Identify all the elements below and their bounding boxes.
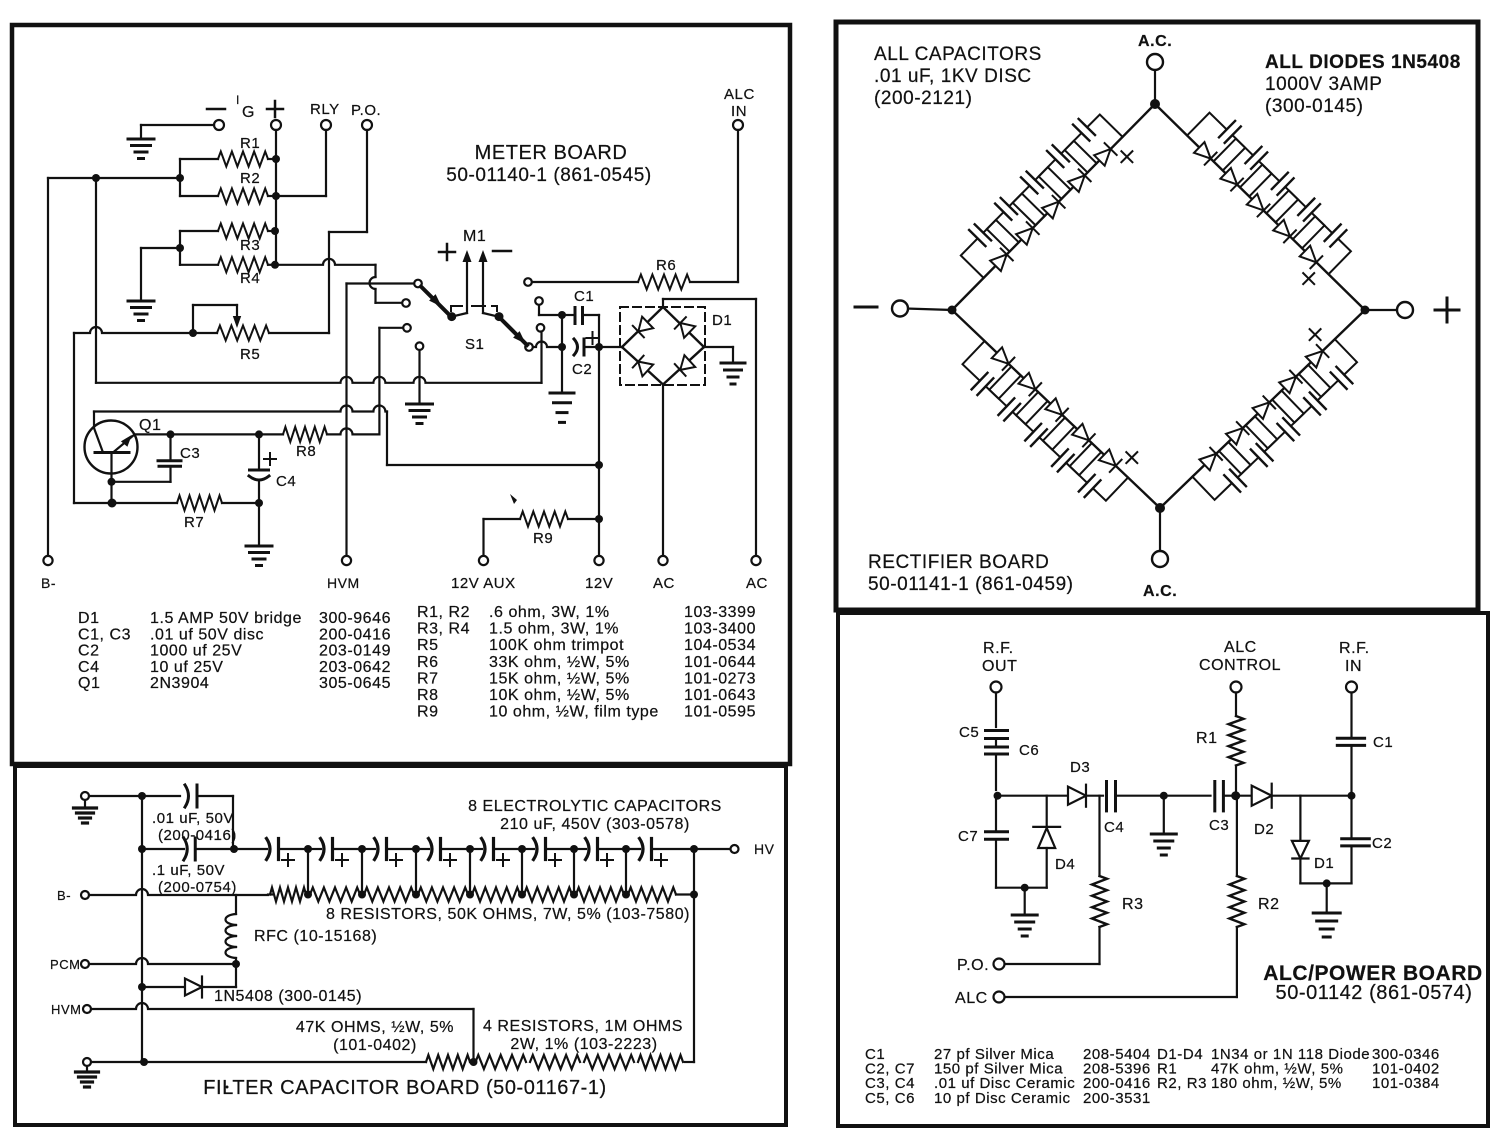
wire y411 bus [94, 406, 387, 412]
electrolytic capacitor 7 [586, 839, 590, 860]
svg-text:R.F.: R.F. [1339, 640, 1370, 657]
svg-text:D1: D1 [1314, 855, 1334, 872]
node ground right [1323, 879, 1331, 887]
node R9 right [595, 515, 603, 523]
ground mid-left [128, 300, 154, 303]
wire Q1 emitter row y434 [135, 433, 261, 435]
svg-text:203-0642: 203-0642 [319, 659, 391, 676]
node Q1 base / R7 [108, 499, 117, 508]
svg-text:R2: R2 [240, 170, 260, 187]
wire right rail x694 [693, 849, 695, 895]
svg-text:10 uf 25V: 10 uf 25V [150, 659, 223, 676]
svg-text:RLY: RLY [310, 101, 340, 118]
meter lead minus arrow [482, 258, 484, 313]
svg-text:ALC: ALC [955, 990, 988, 1007]
node bridge left [948, 306, 957, 315]
svg-text:S1: S1 [465, 336, 484, 353]
svg-text:C4: C4 [276, 473, 296, 490]
svg-text:47K OHMS, ½W, 5%: 47K OHMS, ½W, 5% [296, 1019, 454, 1036]
svg-text:C3: C3 [180, 445, 200, 462]
wire HVM row (hop x142) [91, 1003, 474, 1009]
svg-text:R5: R5 [417, 637, 439, 654]
electrolytic capacitor 1 [267, 839, 271, 860]
svg-text:101-0595: 101-0595 [684, 704, 756, 721]
svg-text:R2: R2 [1258, 896, 1280, 913]
svg-text:1000V 3AMP: 1000V 3AMP [1265, 74, 1382, 95]
svg-text:R2, R3: R2, R3 [1157, 1075, 1207, 1092]
wire rail x142 down [141, 849, 143, 1062]
switch S1 contact F [535, 297, 543, 305]
resistor 1M #4 [638, 1055, 683, 1069]
svg-text:R8: R8 [417, 687, 439, 704]
svg-text:C1: C1 [574, 288, 594, 305]
svg-text:ALL DIODES 1N5408: ALL DIODES 1N5408 [1265, 52, 1461, 73]
electrolytic capacitor 6 [534, 839, 538, 860]
switch pole S1-1 [421, 287, 450, 316]
svg-text:33K ohm, ½W, 5%: 33K ohm, ½W, 5% [489, 654, 630, 671]
svg-text:CONTROL: CONTROL [1199, 657, 1281, 674]
switch pole S1-2 [500, 318, 527, 345]
switch S1 contact G [537, 324, 545, 332]
panel border: RECTIFIER BOARD box [836, 22, 1478, 610]
rail x96 to wire y383 [95, 178, 97, 383]
svg-text:.01 uF, 50V: .01 uF, 50V [152, 810, 234, 827]
svg-text:2W, 1% (103-2223): 2W, 1% (103-2223) [510, 1036, 657, 1053]
bridge arm upper-left (diodes and capacitors) [952, 104, 1155, 310]
svg-text:HVM: HVM [51, 1002, 82, 1017]
node x233 HV row [230, 845, 238, 853]
svg-text:G: G [242, 104, 255, 121]
svg-text:(200-0754): (200-0754) [158, 879, 237, 896]
terminal ground top-left [81, 792, 89, 800]
node R3 right [271, 227, 279, 235]
wire RF OUT rail [995, 693, 997, 728]
terminal AC 2 [751, 556, 760, 565]
svg-text:B-: B- [41, 575, 56, 591]
ground under C2 [550, 392, 574, 395]
svg-text:101-0384: 101-0384 [1372, 1075, 1440, 1092]
svg-text:305-0645: 305-0645 [319, 675, 391, 692]
resistor 50K #6 [524, 888, 572, 902]
resistor 50K #8 [628, 888, 676, 902]
switch S1 contact C [403, 324, 411, 332]
svg-text:D2: D2 [1254, 821, 1274, 838]
wire top row to .01 cap [89, 795, 180, 797]
node y465 [595, 461, 603, 469]
svg-text:Q1: Q1 [78, 675, 100, 692]
wire bus to D3 [996, 795, 1068, 797]
wire resistor row right end [676, 893, 694, 895]
wire x74 rail to R7 [73, 333, 75, 503]
svg-text:8 ELECTROLYTIC CAPACITORS: 8 ELECTROLYTIC CAPACITORS [468, 798, 722, 815]
svg-text:101-0643: 101-0643 [684, 687, 756, 704]
resistor 50K #4 [418, 888, 468, 902]
svg-text:.01 uf 50V disc: .01 uf 50V disc [150, 626, 264, 643]
svg-text:15K ohm, ½W, 5%: 15K ohm, ½W, 5% [489, 670, 630, 687]
svg-text:R6: R6 [417, 654, 439, 671]
svg-text:103-3400: 103-3400 [684, 621, 756, 638]
svg-text:12V: 12V [585, 575, 613, 592]
svg-text:FILTER CAPACITOR BOARD (50-011: FILTER CAPACITOR BOARD (50-01167-1) [203, 1077, 606, 1099]
svg-text:D4: D4 [1055, 856, 1075, 873]
svg-text:ALL CAPACITORS: ALL CAPACITORS [874, 44, 1042, 65]
wire C2 bottom [1300, 882, 1351, 884]
wire ALC row [1005, 996, 1237, 998]
resistor 50K #7 [576, 888, 624, 902]
terminal plus right [1365, 309, 1398, 311]
svg-text:OUT: OUT [982, 658, 1017, 675]
wire bridge bottom to AC rail [662, 385, 664, 557]
terminal B- [81, 891, 89, 899]
wire PCM row (hop x142) [89, 958, 236, 964]
svg-text:(200-0416): (200-0416) [158, 827, 237, 844]
node C3 top [167, 430, 175, 438]
wire R9 to 12V AUX [482, 519, 484, 556]
terminal 12V [594, 556, 603, 565]
svg-text:1.5 ohm, 3W, 1%: 1.5 ohm, 3W, 1% [489, 621, 619, 638]
resistor 50K #3 [364, 888, 414, 902]
resistor 1M #2 [530, 1055, 580, 1069]
svg-text:ALC: ALC [724, 86, 755, 103]
svg-text:R9: R9 [533, 530, 553, 547]
terminal G-plus [267, 108, 283, 111]
svg-text:R9: R9 [417, 704, 439, 721]
ground under S1 [407, 403, 433, 406]
terminal G-minus [207, 108, 225, 111]
svg-text:R5: R5 [240, 346, 260, 363]
svg-text:50-01141-1 (861-0459): 50-01141-1 (861-0459) [868, 574, 1074, 595]
panel border: ALC/POWER BOARD box [838, 613, 1488, 1126]
svg-text:1N5408 (300-0145): 1N5408 (300-0145) [214, 988, 362, 1005]
svg-text:8 RESISTORS, 50K OHMS, 7W, 5%: 8 RESISTORS, 50K OHMS, 7W, 5% (103-7580) [326, 906, 690, 923]
svg-text:R.F.: R.F. [983, 640, 1014, 657]
svg-text:101-0273: 101-0273 [684, 670, 756, 687]
svg-text:RFC (10-15168): RFC (10-15168) [254, 928, 377, 945]
svg-text:203-0149: 203-0149 [319, 643, 391, 660]
wire D4/C7 bottom [996, 887, 1047, 889]
resistor 1M #3 [584, 1055, 634, 1069]
svg-text:IN: IN [1345, 658, 1362, 675]
node 47K/HVM [470, 1058, 478, 1066]
svg-text:Q1: Q1 [139, 417, 161, 434]
svg-text:1.5 AMP 50V bridge: 1.5 AMP 50V bridge [150, 610, 302, 627]
wire B- row (hop x142) [89, 889, 268, 895]
node B- rail top [92, 174, 100, 182]
svg-text:50-01140-1 (861-0545): 50-01140-1 (861-0545) [446, 165, 652, 186]
node bridge top [1150, 99, 1160, 109]
wire contact C to R8 [379, 327, 403, 329]
node R3R4 tie [176, 244, 184, 252]
wire R1R2 left tie [179, 159, 181, 196]
meter lead plus arrow [466, 258, 468, 313]
diode bridge D1 dashed box [620, 307, 705, 385]
svg-text:C4: C4 [78, 659, 100, 676]
svg-text:D3: D3 [1070, 759, 1090, 776]
svg-text:(300-0145): (300-0145) [1265, 96, 1363, 117]
wire HVM down to bottom row [472, 1009, 474, 1062]
node ALC control [1231, 791, 1240, 800]
svg-text:M1: M1 [463, 228, 486, 245]
wire tie to left rails [48, 177, 180, 179]
svg-text:180 ohm, ½W, 5%: 180 ohm, ½W, 5% [1211, 1075, 1342, 1092]
resistor 50K #1 [270, 888, 306, 902]
svg-text:101-0644: 101-0644 [684, 654, 756, 671]
svg-text:C5, C6: C5, C6 [865, 1090, 915, 1107]
wire plus rail [275, 130, 277, 265]
bridge diode bottom-left [638, 362, 653, 377]
svg-text:C6: C6 [1019, 742, 1039, 759]
node RF IN [1348, 792, 1356, 800]
terminal B- [43, 556, 52, 565]
svg-text:C7: C7 [958, 828, 978, 845]
wire to HV terminal [694, 848, 730, 850]
svg-text:R1: R1 [1196, 730, 1218, 747]
svg-text:210 uF, 450V (303-0578): 210 uF, 450V (303-0578) [500, 816, 690, 833]
node top row [138, 792, 146, 800]
svg-text:R3: R3 [240, 237, 260, 254]
terminal PCM [81, 960, 89, 968]
wire R3R4 left tie [179, 231, 181, 265]
svg-text:P.O.: P.O. [351, 102, 381, 119]
svg-text:IN: IN [731, 103, 747, 120]
node C2 out [595, 343, 603, 351]
svg-text:C3: C3 [1209, 817, 1229, 834]
svg-text:C2: C2 [78, 643, 100, 660]
electrolytic capacitor 3 [375, 839, 379, 860]
svg-text:C1, C3: C1, C3 [78, 626, 131, 643]
bridge diamond [622, 307, 663, 347]
node mid bus [1160, 792, 1168, 800]
svg-text:R7: R7 [184, 514, 204, 531]
electrolytic capacitor 5 [482, 839, 486, 860]
ground right of bridge [721, 362, 745, 365]
svg-text:ALC: ALC [1224, 639, 1257, 656]
ground under C4 [246, 545, 272, 548]
svg-text:10K ohm, ½W, 5%: 10K ohm, ½W, 5% [489, 687, 630, 704]
terminal minus left [907, 309, 952, 311]
svg-text:1000 uf 25V: 1000 uf 25V [150, 643, 242, 660]
svg-text:D1: D1 [712, 312, 732, 329]
svg-text:R4: R4 [240, 270, 260, 287]
svg-text:HV: HV [754, 841, 775, 857]
svg-text:R1, R2: R1, R2 [417, 604, 470, 621]
wire contact H to C2 (hop over contact G stem) [533, 342, 562, 348]
wire P.O. row [1005, 963, 1100, 965]
svg-text:100K ohm trimpot: 100K ohm trimpot [489, 637, 624, 654]
switch S1 contact E to R6 [524, 278, 532, 286]
wire R2 to RLY [276, 195, 326, 197]
svg-text:A.C.: A.C. [1143, 583, 1177, 600]
svg-text:R3: R3 [1122, 896, 1144, 913]
terminal HV [731, 845, 739, 853]
svg-text:R8: R8 [296, 443, 316, 460]
electrolytic capacitor 2 [321, 839, 325, 860]
resistor 50K #2 [310, 888, 360, 902]
wire bridge top to AC rail [662, 299, 664, 307]
svg-text:HVM: HVM [327, 575, 360, 591]
ground under D1/C2 [1326, 883, 1328, 912]
switch S1 contact D [416, 342, 424, 350]
wire y465 from tangle [386, 412, 388, 466]
svg-text:C2: C2 [1372, 835, 1392, 852]
svg-text:P.O.: P.O. [957, 957, 989, 974]
terminal A.C. bottom [1159, 508, 1161, 551]
wire bus to C3 [1164, 795, 1211, 797]
ground mid bus [1163, 796, 1165, 833]
svg-text:12V AUX: 12V AUX [451, 575, 516, 592]
terminal ground bottom-left [83, 1058, 91, 1066]
wire tie to ground [141, 247, 180, 249]
wire C1C2 ground [561, 347, 563, 393]
svg-text:R7: R7 [417, 670, 439, 687]
switch S1 contact B [402, 299, 410, 307]
svg-text:50-01142 (861-0574): 50-01142 (861-0574) [1276, 982, 1473, 1004]
svg-text:104-0534: 104-0534 [684, 637, 756, 654]
switch S1 contact A [414, 280, 422, 288]
ground under C7/D4 [1024, 888, 1026, 914]
terminal AC 1 [658, 556, 667, 565]
bridge diode bottom-right [680, 355, 695, 370]
svg-text:10 pf Disc Ceramic: 10 pf Disc Ceramic [934, 1090, 1071, 1107]
node diode row left [138, 983, 146, 991]
terminal 12V AUX [479, 556, 488, 565]
bridge diode top-right [680, 323, 695, 338]
svg-text:103-3399: 103-3399 [684, 604, 756, 621]
svg-text:10 ohm, ½W, film type: 10 ohm, ½W, film type [489, 704, 659, 721]
wire contact D to ground [418, 350, 420, 404]
svg-text:R6: R6 [656, 257, 676, 274]
svg-text:(200-2121): (200-2121) [874, 88, 972, 109]
bridge arm upper-right (diodes and capacitors) [1155, 104, 1365, 310]
svg-text:A.C.: A.C. [1138, 33, 1172, 50]
svg-text:300-9646: 300-9646 [319, 610, 391, 627]
ground top-left [140, 125, 142, 139]
wire bottom row [91, 1061, 144, 1063]
wire bridge right to ground [704, 346, 733, 348]
wire 12V rail [598, 347, 600, 556]
node R4 right [271, 261, 279, 269]
resistor 47K [426, 1055, 470, 1069]
node R1 right [272, 155, 280, 163]
wire R4 to S1 contact B (hop over PO rail) [275, 259, 376, 265]
svg-text:C5: C5 [959, 724, 979, 741]
node RFC bottom / PCM [232, 960, 240, 968]
node bottom row x142 [140, 1058, 148, 1066]
switch S1 contact H [525, 343, 533, 351]
resistor 1M #1 [476, 1055, 527, 1069]
node ground left [1021, 884, 1029, 892]
node HV row left [138, 845, 146, 853]
svg-text:R3, R4: R3, R4 [417, 621, 470, 638]
svg-text:AC: AC [746, 575, 768, 592]
wire left rail x142 [141, 796, 143, 849]
wire minus terminal to ground [141, 124, 214, 126]
svg-text:METER BOARD: METER BOARD [475, 142, 628, 164]
vertical caps-to-resistors ties [307, 849, 309, 895]
electrolytic capacitor 4 [429, 839, 433, 860]
terminal HVM [342, 556, 351, 565]
node C4 bottom [255, 499, 263, 507]
wire contact F to C1 [538, 305, 540, 315]
wire B- rail [47, 178, 49, 556]
svg-text:AC: AC [653, 575, 675, 592]
svg-text:I: I [236, 93, 240, 107]
svg-text:2N3904: 2N3904 [150, 675, 209, 692]
svg-text:PCM: PCM [50, 957, 81, 972]
svg-text:C2: C2 [572, 361, 592, 378]
electrolytic capacitor 8 [640, 839, 644, 860]
bridge diode top-left [638, 317, 653, 332]
node R2 right [272, 192, 280, 200]
resistor 50K #5 [472, 888, 520, 902]
wire bottom row right corner [685, 1061, 694, 1063]
terminal HVM [83, 1005, 91, 1013]
svg-text:4 RESISTORS, 1M OHMS: 4 RESISTORS, 1M OHMS [483, 1018, 683, 1035]
wire contact A to HVM rail [347, 282, 415, 284]
wire y383 bus [96, 377, 542, 383]
node RF OUT bus [994, 792, 1002, 800]
wire HVM rail [345, 284, 347, 557]
svg-text:.01 uF, 1KV DISC: .01 uF, 1KV DISC [874, 66, 1032, 87]
node HV right [690, 845, 698, 853]
svg-text:D1: D1 [78, 610, 100, 627]
bridge arm lower-left (diodes and capacitors) [952, 310, 1160, 508]
panel border: FILTER CAPACITOR BOARD box [15, 766, 786, 1125]
wire C2 node to bridge [599, 346, 622, 348]
8 electrolytic capacitors row [234, 848, 267, 850]
node bridge right [1361, 306, 1370, 315]
terminal A.C. top [1154, 70, 1156, 104]
wire B- row left segment [268, 893, 272, 895]
svg-text:.1 uF, 50V: .1 uF, 50V [152, 862, 225, 879]
svg-text:C4: C4 [1104, 819, 1124, 836]
node bridge bottom [1155, 503, 1165, 513]
svg-text:C1: C1 [1373, 734, 1393, 751]
svg-text:RECTIFIER BOARD: RECTIFIER BOARD [868, 552, 1049, 573]
svg-text:200-0416: 200-0416 [319, 626, 391, 643]
svg-text:.6 ohm, 3W, 1%: .6 ohm, 3W, 1% [489, 604, 610, 621]
bridge arm lower-right (diodes and capacitors) [1160, 310, 1365, 508]
node Q1 base / C3 [108, 478, 116, 486]
stray mark [510, 494, 517, 504]
node R1R2 tie [176, 174, 184, 182]
wire P.O. rail to R5 [366, 130, 368, 232]
svg-text:200-3531: 200-3531 [1083, 1090, 1151, 1107]
node C4 top [255, 430, 263, 438]
panel border: METER BOARD box [12, 25, 790, 764]
svg-text:(101-0402): (101-0402) [333, 1037, 417, 1054]
svg-text:B-: B- [57, 888, 71, 903]
